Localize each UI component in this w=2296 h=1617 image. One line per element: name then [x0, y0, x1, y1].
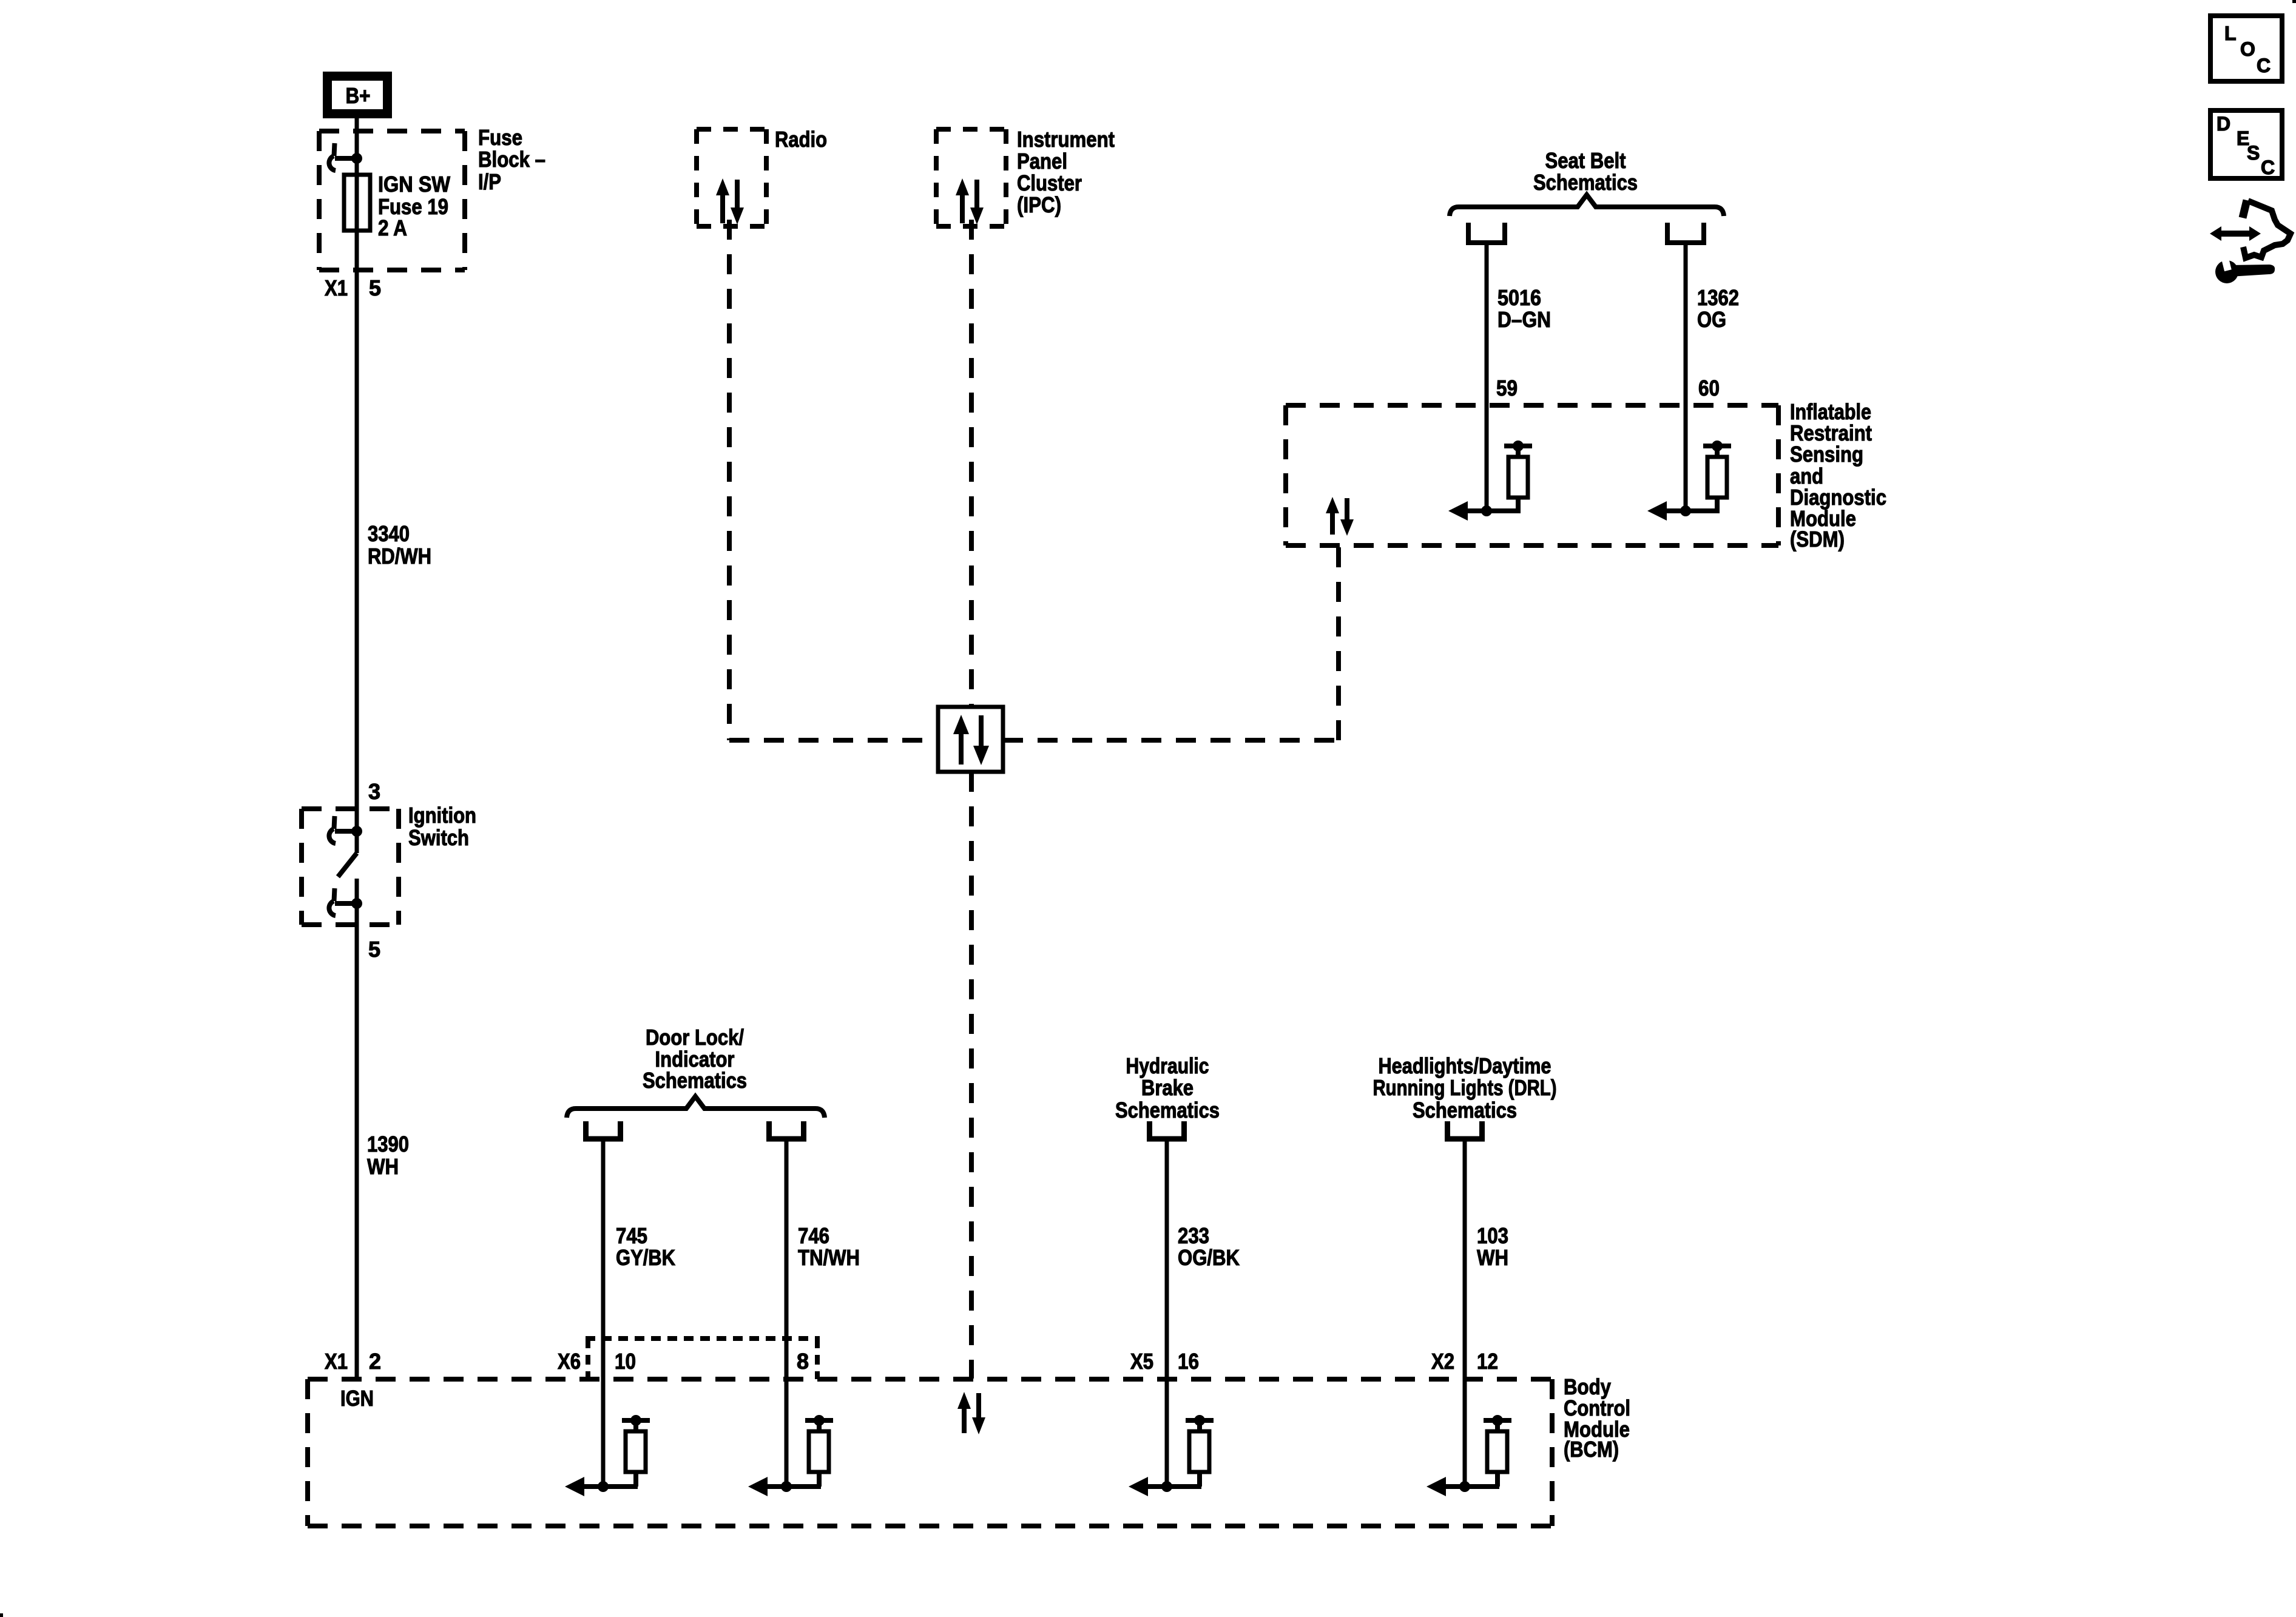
svg-text:OG/BK: OG/BK — [1178, 1245, 1240, 1270]
power symbol B+ — [328, 76, 388, 114]
label Instrument Panel Cluster (IPC) — [1017, 127, 1115, 217]
connector to seat belt schematic (left) — [1468, 223, 1505, 243]
junction dot lower contact — [351, 898, 362, 909]
brace seat belt schematics — [1450, 195, 1724, 216]
label Ignition Switch — [408, 803, 476, 850]
svg-text:Schematics: Schematics — [1115, 1098, 1220, 1122]
svg-text:1362: 1362 — [1697, 285, 1739, 310]
wire 5016 D-GN — [1485, 243, 1489, 511]
BCM serial data arrows (IPC line) — [957, 1392, 985, 1434]
svg-text:I/P: I/P — [478, 169, 501, 194]
svg-text:Schematics: Schematics — [643, 1068, 747, 1093]
svg-text:Door Lock/: Door Lock/ — [646, 1025, 744, 1050]
connector to door lock schematic (right) — [769, 1121, 804, 1139]
svg-text:60: 60 — [1698, 376, 1720, 400]
svg-text:Seat Belt: Seat Belt — [1545, 148, 1626, 173]
svg-text:59: 59 — [1496, 376, 1518, 400]
svg-text:16: 16 — [1178, 1349, 1199, 1374]
svg-text:10: 10 — [615, 1349, 636, 1374]
SDM internal node arrow (pin 60) — [1647, 501, 1720, 521]
svg-text:Radio: Radio — [775, 127, 827, 152]
LOC navigation box — [2210, 16, 2282, 81]
svg-text:Fuse: Fuse — [478, 125, 522, 150]
dashed wire splice box to SDM — [1003, 545, 1339, 740]
BCM internal resistor R5 (pin 16) — [1186, 1415, 1214, 1487]
svg-text:Running Lights (DRL): Running Lights (DRL) — [1373, 1075, 1557, 1100]
junction dot at fuse input — [351, 153, 362, 164]
BCM internal resistor R4 (pin 8) — [805, 1415, 833, 1487]
label fuse F19 — [378, 172, 450, 240]
DESC navigation box — [2210, 110, 2282, 178]
connector X5 pin 16 label — [1130, 1349, 1199, 1374]
label Inflatable Restraint Sensing and Diagnostic Module (SDM) — [1790, 399, 1886, 552]
svg-text:Schematics: Schematics — [1413, 1098, 1517, 1122]
svg-text:(BCM): (BCM) — [1564, 1437, 1619, 1462]
page corner mark bottom-left — [0, 1613, 3, 1617]
svg-text:S: S — [2247, 142, 2260, 164]
diagnostic icon: connector tab — [2243, 200, 2247, 218]
page corner mark top-right — [2292, 0, 2296, 3]
svg-text:Headlights/Daytime: Headlights/Daytime — [1379, 1053, 1551, 1078]
svg-text:2: 2 — [369, 1349, 381, 1374]
label Door Lock / Indicator Schematics — [643, 1025, 747, 1093]
connector X6 box — [586, 1338, 820, 1379]
svg-text:X6: X6 — [558, 1349, 581, 1374]
BCM internal resistor R6 (pin 12) — [1484, 1415, 1511, 1487]
wire label 1390 WH — [367, 1132, 409, 1179]
wire label 233 OG/BK — [1178, 1223, 1240, 1270]
dashed wire splice box to BCM — [969, 772, 974, 1379]
svg-text:3: 3 — [368, 779, 380, 804]
fuse F19 IGN SW 2A — [344, 175, 370, 231]
svg-text:Schematics: Schematics — [1533, 170, 1638, 195]
BCM internal resistor R3 (pin 10) — [622, 1415, 650, 1487]
wire 745 GY/BK — [601, 1139, 606, 1487]
svg-text:(IPC): (IPC) — [1017, 192, 1061, 217]
serial data splice box — [938, 707, 1003, 772]
diagnostic icon: wrench — [2215, 256, 2275, 283]
svg-text:TN/WH: TN/WH — [798, 1245, 860, 1270]
svg-text:746: 746 — [798, 1223, 829, 1248]
svg-text:D–GN: D–GN — [1497, 307, 1551, 332]
svg-text:745: 745 — [616, 1223, 647, 1248]
svg-text:Switch: Switch — [408, 825, 469, 850]
wire 746 TN/WH — [785, 1139, 789, 1487]
wire 233 OG/BK — [1165, 1139, 1169, 1487]
svg-text:RD/WH: RD/WH — [368, 544, 431, 569]
wire ignition switch to BCM (circuit 1390) — [355, 925, 359, 1379]
connector X1 pin 5 label — [325, 275, 381, 300]
svg-text:WH: WH — [1477, 1245, 1508, 1270]
svg-text:Brake: Brake — [1141, 1075, 1194, 1100]
BCM dashed box — [308, 1379, 1552, 1526]
label Fuse Block - I/P — [478, 125, 545, 194]
diagnostic icon: double arrow — [2210, 226, 2261, 241]
svg-text:D: D — [2217, 113, 2230, 135]
SDM dashed box — [1286, 405, 1778, 545]
SDM serial data arrows — [1326, 497, 1354, 536]
wire label 3340 RD/WH — [368, 521, 431, 569]
svg-text:OG: OG — [1697, 307, 1726, 332]
svg-text:IGN: IGN — [340, 1386, 374, 1411]
svg-text:X1: X1 — [325, 275, 348, 300]
junction dot upper contact — [351, 826, 362, 837]
svg-text:1390: 1390 — [367, 1132, 409, 1156]
svg-text:C: C — [2257, 55, 2271, 76]
svg-text:(SDM): (SDM) — [1790, 527, 1845, 552]
ignition switch upper terminal clip — [334, 816, 335, 829]
svg-text:O: O — [2240, 38, 2255, 60]
switch blade — [338, 853, 357, 877]
svg-text:X5: X5 — [1130, 1349, 1153, 1374]
clip lead to junction — [335, 829, 357, 834]
radio serial data arrows — [716, 178, 744, 224]
SDM internal node arrow (pin 59) — [1448, 501, 1521, 521]
connector to hydraulic brake schematic — [1150, 1121, 1184, 1139]
svg-text:Panel: Panel — [1017, 149, 1067, 174]
svg-text:X1: X1 — [325, 1349, 348, 1374]
svg-text:WH: WH — [367, 1154, 399, 1179]
fuse block terminal clip — [334, 143, 335, 156]
fuse block I/P dashed box — [319, 131, 465, 270]
svg-text:8: 8 — [797, 1349, 809, 1374]
BCM internal node arrow (pin 12) — [1427, 1477, 1499, 1496]
label Seat Belt Schematics — [1533, 148, 1638, 195]
svg-text:C: C — [2261, 157, 2275, 178]
svg-text:Hydraulic: Hydraulic — [1126, 1053, 1209, 1078]
connector X2 pin 12 label — [1431, 1349, 1498, 1374]
wire label 5016 D-GN — [1497, 285, 1551, 332]
SDM internal pull-up resistor R2 (pin 60) — [1703, 441, 1731, 511]
wire from B+ to fuse — [355, 118, 359, 175]
dashed wire IPC down to splice box — [969, 220, 974, 707]
instrument panel cluster dashed box — [936, 129, 1006, 226]
svg-text:2 A: 2 A — [378, 215, 407, 240]
svg-text:12: 12 — [1477, 1349, 1498, 1374]
lower contact stub — [355, 879, 359, 925]
svg-text:B+: B+ — [346, 83, 371, 108]
svg-text:103: 103 — [1477, 1223, 1508, 1248]
svg-text:5016: 5016 — [1497, 285, 1541, 310]
svg-text:X2: X2 — [1431, 1349, 1454, 1374]
BCM internal node arrow (pin 8) — [748, 1477, 821, 1496]
svg-text:IGN SW: IGN SW — [378, 172, 450, 197]
wire label 745 GY/BK — [616, 1223, 675, 1270]
svg-text:L: L — [2224, 22, 2237, 44]
label Headlights/Daytime Running Lights (DRL) Schematics — [1373, 1053, 1557, 1122]
ignition switch lower terminal clip — [334, 888, 335, 901]
clip lead to junction lower — [335, 901, 357, 906]
wire fuse to ignition switch (circuit 3340) — [355, 231, 359, 853]
connector to door lock schematic (left) — [586, 1121, 621, 1139]
connector X1 pin 2 label — [325, 1349, 381, 1374]
label Body Control Module (BCM) — [1564, 1374, 1630, 1462]
BCM internal node arrow (pin 10) — [565, 1477, 638, 1496]
SDM internal pull-up resistor R1 (pin 59) — [1504, 441, 1532, 511]
radio dashed box — [697, 129, 766, 226]
svg-text:Instrument: Instrument — [1017, 127, 1115, 152]
svg-text:5: 5 — [369, 275, 381, 300]
connector to seat belt schematic (right) — [1667, 223, 1704, 243]
svg-text:3340: 3340 — [368, 521, 410, 546]
svg-text:Ignition: Ignition — [408, 803, 476, 828]
svg-text:Sensing: Sensing — [1790, 442, 1863, 467]
diagnostic icon: connector outline — [2243, 201, 2291, 258]
dashed wire radio to splice box — [729, 220, 938, 740]
wire label 1362 OG — [1697, 285, 1739, 332]
label Hydraulic Brake Schematics — [1115, 1053, 1220, 1122]
svg-text:Block –: Block – — [478, 147, 545, 172]
svg-text:GY/BK: GY/BK — [616, 1245, 675, 1270]
wire 103 WH — [1463, 1139, 1467, 1487]
wire label 746 TN/WH — [798, 1223, 860, 1270]
BCM internal node arrow (pin 16) — [1129, 1477, 1201, 1496]
ignition switch dashed box — [302, 809, 399, 925]
svg-text:Cluster: Cluster — [1017, 170, 1082, 195]
wire clip to junction — [335, 156, 357, 161]
connector to headlights schematic — [1448, 1121, 1482, 1139]
wire 1362 OG — [1684, 243, 1688, 511]
wire label 103 WH — [1477, 1223, 1508, 1270]
svg-text:233: 233 — [1178, 1223, 1209, 1248]
svg-text:5: 5 — [368, 937, 380, 962]
brace door lock schematics — [567, 1096, 825, 1118]
IPC serial data arrows — [956, 178, 984, 224]
